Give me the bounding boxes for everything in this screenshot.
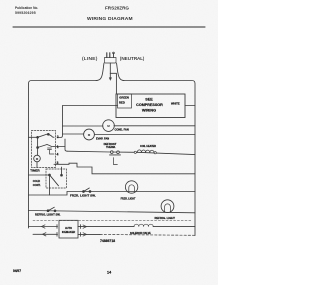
svg-text:4: 4 xyxy=(57,152,59,156)
svg-text:ICEMAKER: ICEMAKER xyxy=(62,231,76,234)
svg-text:FRS20ZRG: FRS20ZRG xyxy=(105,6,129,11)
svg-text:COMPRESSOR: COMPRESSOR xyxy=(136,103,163,107)
svg-text:COIL HEATER: COIL HEATER xyxy=(140,145,156,148)
svg-text:5995206295: 5995206295 xyxy=(15,11,36,15)
svg-text:COND. FAN: COND. FAN xyxy=(115,128,129,132)
svg-text:WIRING DIAGRAM: WIRING DIAGRAM xyxy=(87,16,133,22)
svg-text:TIMER: TIMER xyxy=(30,169,40,173)
svg-text:74889718: 74889718 xyxy=(100,239,115,243)
svg-text:1: 1 xyxy=(57,145,59,149)
svg-text:WHITE: WHITE xyxy=(171,101,180,105)
svg-text:THERM.: THERM. xyxy=(106,146,116,149)
svg-text:(LINE): (LINE) xyxy=(82,56,98,62)
svg-text:04/97: 04/97 xyxy=(13,269,21,273)
svg-text:REFRIG. LIGHT: REFRIG. LIGHT xyxy=(155,216,176,220)
svg-text:RED: RED xyxy=(119,100,125,104)
svg-text:AUTO: AUTO xyxy=(65,227,72,230)
svg-text:REFRIG. LIGHT SW.: REFRIG. LIGHT SW. xyxy=(35,213,61,217)
svg-text:DEFROST: DEFROST xyxy=(104,142,117,146)
svg-text:SOLENOID VALVE: SOLENOID VALVE xyxy=(130,232,151,235)
svg-text:(NEUTRAL): (NEUTRAL) xyxy=(120,56,145,61)
svg-text:SEE: SEE xyxy=(145,97,153,101)
svg-text:FRZR. LIGHT: FRZR. LIGHT xyxy=(121,197,136,200)
svg-text:Publication No.: Publication No. xyxy=(15,6,38,10)
svg-text:WIRING: WIRING xyxy=(142,108,156,112)
svg-text:FRZR. LIGHT SW.: FRZR. LIGHT SW. xyxy=(70,193,96,197)
svg-text:EVAP. FAN: EVAP. FAN xyxy=(96,137,109,141)
svg-text:CONT.: CONT. xyxy=(33,183,41,187)
svg-text:3: 3 xyxy=(57,161,59,165)
svg-text:2: 2 xyxy=(57,135,59,139)
svg-text:GREEN: GREEN xyxy=(119,96,129,100)
svg-text:COLD: COLD xyxy=(33,179,40,183)
